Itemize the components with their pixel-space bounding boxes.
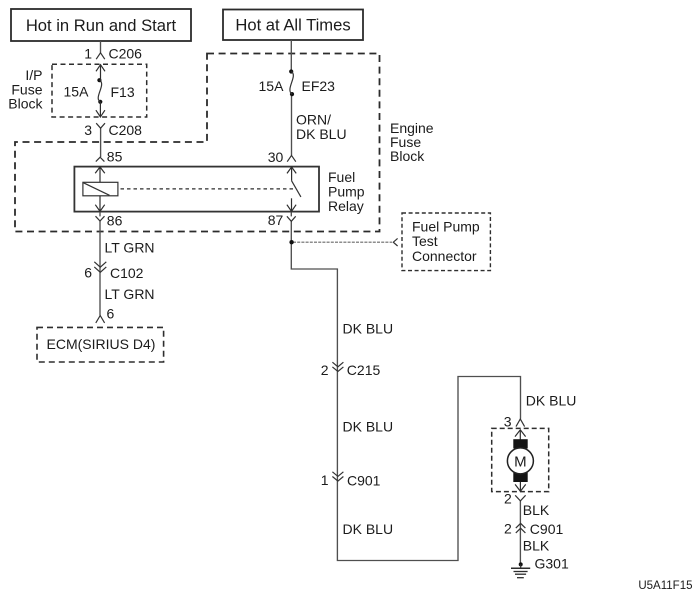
svg-text:G301: G301 — [535, 555, 569, 571]
svg-text:Connector: Connector — [412, 248, 477, 264]
svg-text:BLK: BLK — [523, 537, 550, 553]
svg-text:LT GRN: LT GRN — [105, 240, 155, 256]
svg-text:3: 3 — [504, 413, 512, 429]
svg-text:ECM(SIRIUS D4): ECM(SIRIUS D4) — [47, 336, 156, 352]
svg-text:C901: C901 — [347, 473, 381, 489]
svg-text:DK BLU: DK BLU — [343, 320, 394, 336]
svg-text:C208: C208 — [109, 122, 143, 138]
svg-text:DK BLU: DK BLU — [526, 392, 577, 408]
svg-text:Hot in Run and Start: Hot in Run and Start — [26, 16, 177, 35]
svg-text:15A: 15A — [64, 84, 90, 100]
svg-text:DK BLU: DK BLU — [343, 521, 394, 537]
svg-text:2: 2 — [321, 362, 329, 378]
svg-text:86: 86 — [107, 213, 123, 229]
svg-text:C102: C102 — [110, 265, 144, 281]
svg-text:2: 2 — [504, 490, 512, 506]
svg-text:LT GRN: LT GRN — [105, 286, 155, 302]
svg-text:6: 6 — [107, 305, 115, 321]
svg-text:Relay: Relay — [328, 198, 364, 214]
svg-text:U5A11F15: U5A11F15 — [638, 580, 692, 592]
svg-text:1: 1 — [321, 472, 329, 488]
svg-text:3: 3 — [84, 122, 92, 138]
svg-text:DK BLU: DK BLU — [296, 126, 347, 142]
svg-text:C215: C215 — [347, 362, 381, 378]
svg-text:EF23: EF23 — [302, 78, 336, 94]
svg-text:6: 6 — [84, 264, 92, 280]
svg-text:Block: Block — [390, 148, 425, 164]
svg-text:DK BLU: DK BLU — [343, 418, 394, 434]
svg-text:1: 1 — [84, 46, 92, 62]
svg-text:87: 87 — [268, 212, 284, 228]
svg-text:M: M — [514, 453, 527, 470]
svg-text:C901: C901 — [530, 521, 564, 537]
svg-text:BLK: BLK — [523, 502, 550, 518]
svg-text:30: 30 — [268, 149, 284, 165]
svg-text:F13: F13 — [111, 84, 135, 100]
svg-text:Block: Block — [8, 96, 43, 112]
svg-text:Hot at All Times: Hot at All Times — [235, 16, 350, 35]
svg-text:Test: Test — [412, 233, 438, 249]
svg-text:85: 85 — [107, 148, 123, 164]
svg-text:15A: 15A — [259, 78, 285, 94]
svg-text:C206: C206 — [109, 46, 143, 62]
svg-text:2: 2 — [504, 520, 512, 536]
